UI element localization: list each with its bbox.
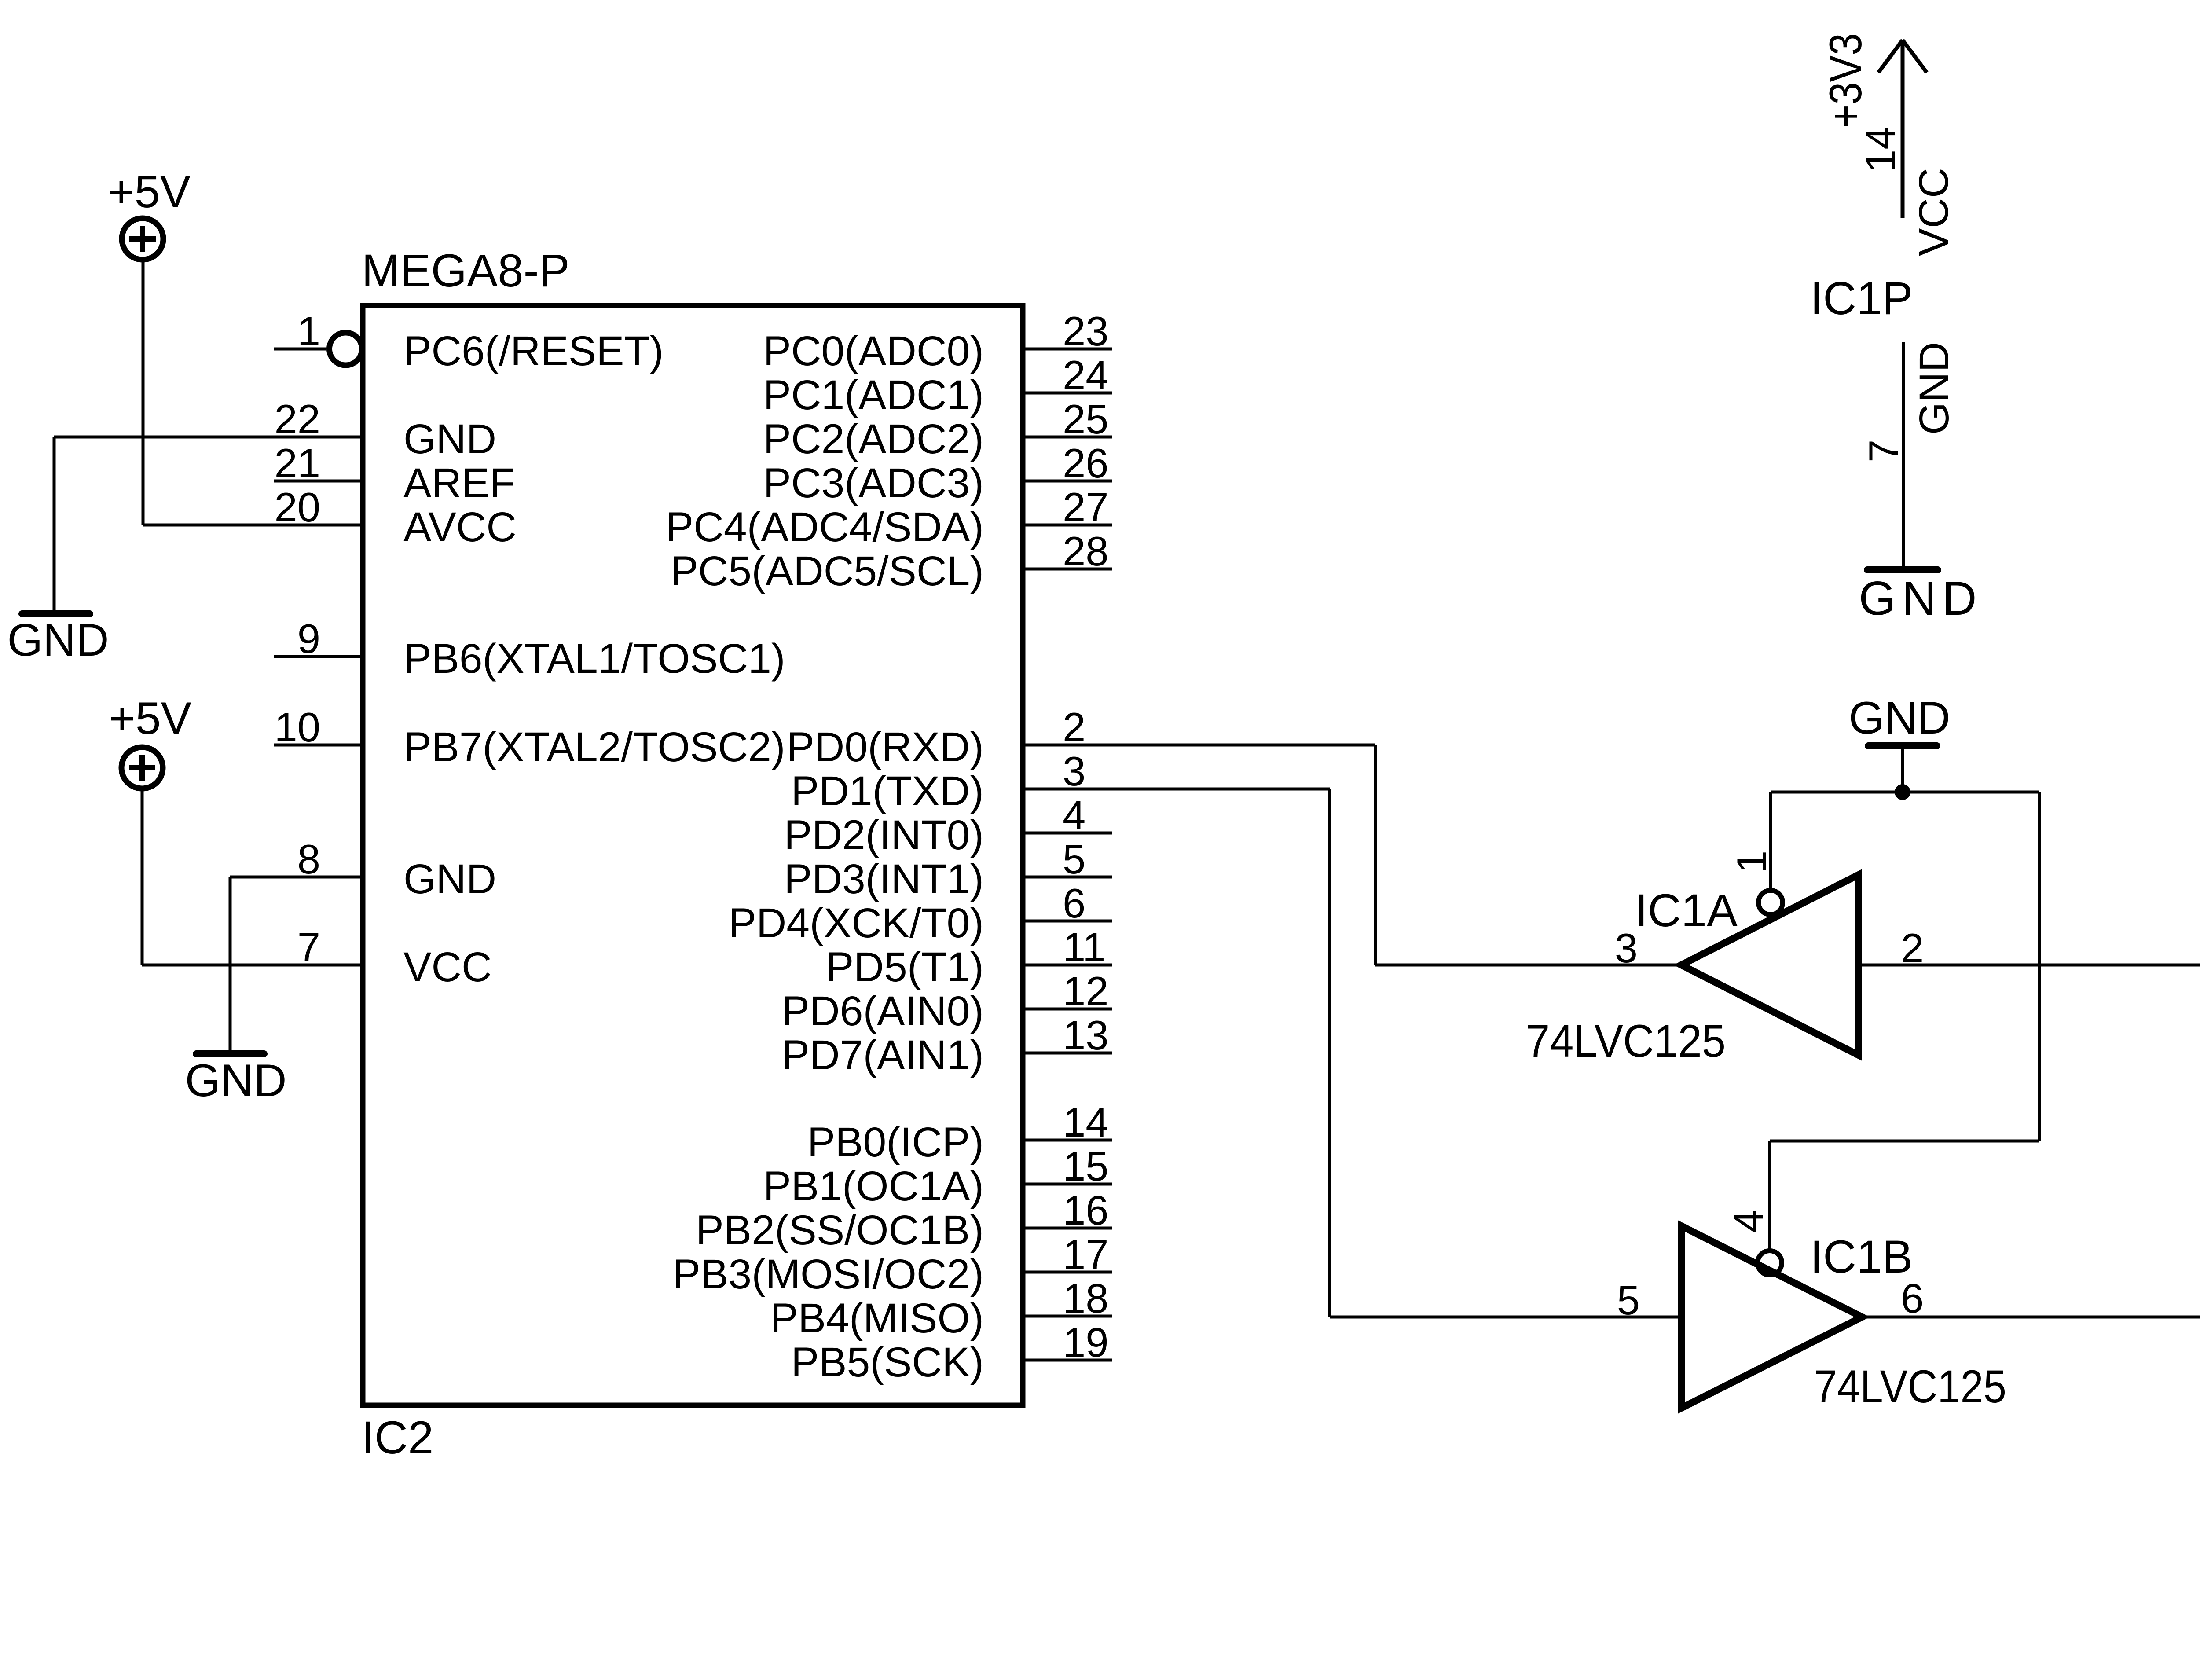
IC IC2 MEGA8-P body	[363, 306, 1023, 1405]
svg-text:IC1B: IC1B	[1810, 1231, 1913, 1283]
svg-text:23: 23	[1063, 308, 1109, 354]
pin 6 PD4(XCK/T0)	[728, 880, 1112, 946]
pin 10 PB7(XTAL2/TOSC2)	[274, 704, 785, 770]
svg-text:22: 22	[274, 396, 320, 442]
svg-text:7: 7	[1860, 440, 1907, 462]
svg-text:4: 4	[1063, 792, 1085, 838]
wire +5V to AVCC pin 20	[142, 262, 145, 525]
svg-text:19: 19	[1063, 1319, 1109, 1365]
svg-text:PC2(ADC2): PC2(ADC2)	[763, 416, 984, 462]
ground GND (left upper)	[7, 614, 109, 666]
wire +5V to VCC pin 7	[141, 791, 144, 965]
svg-text:5: 5	[1617, 1277, 1640, 1323]
svg-text:74LVC125: 74LVC125	[1526, 1016, 1726, 1067]
svg-text:+3V3: +3V3	[1820, 33, 1871, 128]
svg-text:9: 9	[297, 616, 320, 662]
svg-text:74LVC125: 74LVC125	[1814, 1361, 2006, 1412]
pin 14 PB0(ICP)	[807, 1099, 1112, 1166]
wire IC1B output to RX_PIN	[1862, 1316, 2200, 1319]
svg-text:VCC: VCC	[1910, 168, 1957, 256]
svg-text:GND: GND	[1848, 693, 1950, 744]
svg-text:PC5(ADC5/SCL): PC5(ADC5/SCL)	[670, 548, 984, 594]
pin 9 PB6(XTAL1/TOSC1)	[274, 616, 785, 682]
svg-text:PC0(ADC0): PC0(ADC0)	[763, 328, 984, 374]
svg-text:5: 5	[1063, 836, 1085, 882]
pin 19 PB5(SCK)	[791, 1319, 1112, 1386]
svg-text:VCC: VCC	[403, 944, 492, 990]
pin 23 PC0(ADC0)	[763, 308, 1112, 374]
buffer IC1B 74LVC125 (points right)	[1681, 1226, 1862, 1408]
pin 20 AVCC	[274, 484, 517, 550]
supply +5V (top-left)	[108, 166, 191, 260]
pin 27 PC4(ADC4/SDA)	[666, 484, 1112, 550]
pin 7 VCC	[274, 924, 492, 990]
svg-text:18: 18	[1063, 1275, 1109, 1321]
wire PD0(RXD) pin2 to IC1A output	[1023, 744, 1375, 747]
pin 15 PB1(OC1A)	[763, 1143, 1112, 1210]
svg-text:24: 24	[1063, 352, 1109, 398]
svg-text:PB6(XTAL1/TOSC1): PB6(XTAL1/TOSC1)	[403, 635, 785, 682]
svg-text:6: 6	[1063, 880, 1085, 926]
svg-text:PD4(XCK/T0): PD4(XCK/T0)	[728, 900, 984, 946]
svg-text:3: 3	[1063, 748, 1085, 794]
svg-text:7: 7	[297, 924, 320, 970]
svg-text:PC3(ADC3): PC3(ADC3)	[763, 460, 984, 506]
svg-text:14: 14	[1063, 1099, 1109, 1145]
wire PD1(TXD) pin3 to IC1B input	[1023, 788, 1330, 791]
svg-text:IC2: IC2	[362, 1412, 433, 1464]
pin 11 PD5(T1)	[826, 924, 1112, 990]
svg-text:GND: GND	[1859, 572, 1982, 625]
ground GND (above IC1A)	[1848, 693, 1950, 792]
svg-text:IC1P: IC1P	[1810, 273, 1913, 324]
svg-text:PD3(INT1): PD3(INT1)	[784, 856, 984, 902]
svg-text:PD7(AIN1): PD7(AIN1)	[782, 1032, 984, 1078]
svg-text:12: 12	[1063, 968, 1109, 1014]
svg-text:PD1(TXD): PD1(TXD)	[791, 768, 984, 814]
svg-text:AVCC: AVCC	[403, 504, 517, 550]
svg-text:10: 10	[274, 704, 320, 750]
ground GND (IC1P)	[1859, 570, 1982, 625]
pin 28 PC5(ADC5/SCL)	[670, 528, 1112, 594]
pin 17 PB3(MOSI/OC2)	[673, 1231, 1112, 1298]
svg-text:28: 28	[1063, 528, 1109, 574]
svg-text:PD6(AIN0): PD6(AIN0)	[782, 988, 984, 1034]
wire GND pin 8	[230, 876, 363, 879]
svg-text:4: 4	[1725, 1210, 1771, 1233]
svg-text:PB3(MOSI/OC2): PB3(MOSI/OC2)	[673, 1251, 984, 1298]
svg-text:PB2(SS/OC1B): PB2(SS/OC1B)	[696, 1207, 984, 1254]
svg-text:GND: GND	[185, 1055, 286, 1106]
junction dot	[1895, 784, 1910, 800]
svg-text:GND: GND	[403, 856, 496, 902]
svg-text:PD2(INT0): PD2(INT0)	[784, 812, 984, 858]
svg-text:21: 21	[274, 440, 320, 486]
svg-text:1: 1	[297, 308, 320, 354]
pin 12 PD6(AIN0)	[782, 968, 1112, 1034]
svg-text:MEGA8-P: MEGA8-P	[362, 245, 570, 297]
pin 13 PD7(AIN1)	[782, 1012, 1112, 1078]
wire IC1A input to TX_PIN	[1859, 964, 2200, 967]
supply +3V3 arrow (IC1P VCC pin 14)	[1878, 40, 1927, 218]
pin 24 PC1(ADC1)	[763, 352, 1112, 418]
svg-text:PC6(/RESET): PC6(/RESET)	[403, 328, 664, 374]
supply +5V (left lower)	[109, 693, 191, 789]
ground GND (left lower)	[185, 1054, 286, 1106]
pin 2 PD0(RXD)	[786, 704, 1085, 770]
svg-text:PB0(ICP): PB0(ICP)	[807, 1119, 984, 1166]
svg-text:26: 26	[1063, 440, 1109, 486]
pin 3 PD1(TXD)	[791, 748, 1085, 814]
svg-text:16: 16	[1063, 1187, 1109, 1233]
pin 7 GND line (IC1P)	[1902, 342, 1905, 567]
svg-text:IC1A: IC1A	[1635, 885, 1738, 936]
pin 4 PD2(INT0)	[784, 792, 1112, 858]
pin 5 PD3(INT1)	[784, 836, 1112, 902]
pin 18 PB4(MISO)	[770, 1275, 1112, 1342]
svg-text:GND: GND	[7, 615, 109, 666]
svg-text:PC4(ADC4/SDA): PC4(ADC4/SDA)	[666, 504, 984, 550]
svg-text:2: 2	[1063, 704, 1085, 750]
svg-text:8: 8	[297, 836, 320, 882]
pin 16 PB2(SS/OC1B)	[696, 1187, 1112, 1254]
pin 21 AREF	[274, 440, 515, 506]
svg-text:GND: GND	[1911, 342, 1958, 435]
svg-text:27: 27	[1063, 484, 1109, 530]
svg-text:11: 11	[1063, 924, 1106, 970]
pin 1 PC6(/RESET)	[274, 308, 664, 374]
pin 22 GND	[274, 396, 496, 462]
wire GND pin 22	[54, 436, 363, 439]
svg-text:PD0(RXD): PD0(RXD)	[786, 724, 984, 770]
svg-text:20: 20	[274, 484, 320, 530]
pin 25 PC2(ADC2)	[763, 396, 1112, 462]
svg-text:PB1(OC1A): PB1(OC1A)	[763, 1163, 984, 1210]
svg-text:15: 15	[1063, 1143, 1109, 1189]
svg-text:6: 6	[1901, 1275, 1924, 1321]
svg-text:PB4(MISO): PB4(MISO)	[770, 1295, 984, 1342]
svg-text:GND: GND	[403, 416, 496, 462]
svg-text:PD5(T1): PD5(T1)	[826, 944, 984, 990]
svg-text:PB5(SCK): PB5(SCK)	[791, 1339, 984, 1386]
svg-text:PB7(XTAL2/TOSC2): PB7(XTAL2/TOSC2)	[403, 724, 785, 770]
svg-text:AREF: AREF	[403, 460, 515, 506]
svg-text:1: 1	[1728, 851, 1775, 873]
svg-text:+5V: +5V	[109, 693, 191, 744]
svg-text:14: 14	[1857, 126, 1903, 172]
wire GND to enables	[1771, 791, 2039, 794]
svg-text:17: 17	[1063, 1231, 1109, 1277]
pin 26 PC3(ADC3)	[763, 440, 1112, 506]
pin 8 GND	[274, 836, 496, 902]
svg-text:3: 3	[1615, 925, 1638, 971]
svg-text:25: 25	[1063, 396, 1109, 442]
svg-text:+5V: +5V	[108, 166, 191, 217]
svg-text:13: 13	[1063, 1012, 1109, 1058]
svg-text:PC1(ADC1): PC1(ADC1)	[763, 372, 984, 418]
buffer IC1A 74LVC125 (points left)	[1681, 875, 1859, 1055]
